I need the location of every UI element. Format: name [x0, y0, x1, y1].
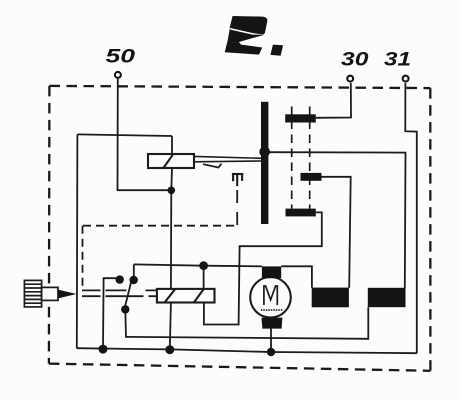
field bar B1 [312, 288, 349, 308]
motor bottom brush [262, 318, 283, 329]
motor underline [261, 309, 283, 311]
armature rod [194, 156, 261, 161]
wire terminal 30 drop [316, 83, 351, 118]
outer dashed enclosure left edge [48, 86, 51, 364]
node J2 [199, 261, 208, 270]
wire contact bridge to bar B2 [269, 152, 406, 288]
dashed guide left of capacitor column [291, 107, 293, 209]
armature comb symbol [232, 173, 243, 186]
node A [99, 345, 108, 354]
switch contact right [130, 276, 138, 284]
wire motor top brush to bar B1 [281, 266, 312, 287]
connector actuation arrow [58, 290, 77, 299]
wire switch upper-right contact riser [133, 264, 135, 276]
wire coil K1 top stub [171, 136, 173, 154]
wire terminal 31 drop [405, 83, 417, 353]
capacitor bar C2 [301, 173, 322, 181]
svg-text:31: 31 [384, 50, 411, 71]
capacitor bar C3 [286, 209, 316, 217]
inner dashed boundary top edge [83, 225, 237, 227]
node C [267, 348, 275, 356]
outer dashed enclosure bottom edge [49, 364, 431, 371]
wire capacitor C2 to bar B1 [322, 177, 351, 288]
switch contact lower [121, 305, 129, 313]
node on contact bridge [259, 147, 270, 158]
relay coil K2 [157, 289, 215, 303]
wire coil K2 right top stub [203, 266, 205, 289]
linkage dashed drop from armature [236, 190, 238, 226]
outer dashed enclosure top edge [50, 86, 431, 88]
wire bottom bus [77, 348, 417, 353]
motor top brush [262, 266, 281, 278]
inner dashed boundary left edge [82, 226, 84, 290]
wire coil K1 bottom to node J1 and down to coil K2 [171, 168, 172, 289]
node B [165, 345, 174, 354]
wire switch upper-left contact to bus [103, 278, 116, 349]
switch contact left [116, 275, 124, 283]
capacitor bar C1 [285, 114, 316, 122]
svg-text:30: 30 [341, 50, 369, 71]
outer dashed enclosure right edge [429, 88, 431, 371]
linkage double dashed line upper [82, 289, 157, 291]
relay coil K1 [148, 154, 194, 168]
terminal 30 [347, 76, 353, 82]
wire top-left horizontal [77, 134, 172, 136]
wire inner-left vertical [76, 134, 79, 348]
terminal 31 [403, 76, 409, 82]
wire terminal 50 drop [118, 79, 169, 190]
armature flag [203, 164, 222, 168]
wire switch lower contact to bar B2 [125, 307, 368, 339]
linkage double dashed line lower [82, 295, 157, 297]
wire coil K2 left bottom stub to bus [170, 303, 171, 350]
svg-text:50: 50 [106, 46, 136, 68]
wire switch to motor brush [134, 264, 262, 266]
field bar B2 [368, 288, 406, 307]
node J1 [168, 187, 176, 195]
wire capacitor C3 to field loop [204, 212, 322, 324]
connector plug ribbed cap [24, 280, 41, 307]
dashed guide right of capacitor column [309, 107, 311, 209]
motor letter M [264, 286, 277, 305]
contact bridge bar [261, 102, 268, 224]
connector plug body [42, 287, 58, 300]
switch blade [124, 281, 131, 310]
wire motor bottom brush to bus [270, 329, 272, 352]
motor M circle [250, 277, 291, 318]
terminal 50 [115, 72, 121, 78]
title figure number 2. [225, 16, 283, 56]
